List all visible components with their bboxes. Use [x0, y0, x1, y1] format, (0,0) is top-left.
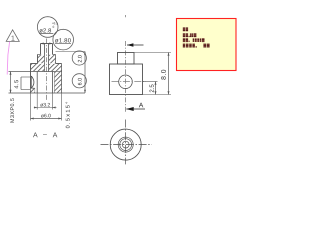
bore dia3.2 walls — [36, 72, 38, 94]
section arrow top — [127, 44, 144, 46]
dim 4.5 line — [10, 72, 12, 94]
section title A - A — [33, 132, 38, 137]
dim 8.0 line — [168, 53, 170, 95]
dim 2.5 extension — [143, 81, 158, 83]
bottom edge with extensions — [9, 92, 86, 94]
bottom view crosshair vertical — [125, 120, 127, 165]
note text line3 — [183, 38, 185, 42]
chamfer label 0.5x15 — [66, 102, 70, 128]
flange hatch band left — [31, 64, 44, 71]
body walls — [30, 64, 32, 94]
M3XP0.5 label — [10, 98, 14, 122]
dia6.0 dimension — [31, 118, 62, 120]
balloon circle dia 1.80 — [53, 29, 74, 50]
right view vertical centerline — [125, 41, 127, 113]
dim 4.5 text — [14, 80, 18, 88]
section view axis centerline — [46, 39, 48, 101]
collar walls — [37, 55, 39, 64]
collar hatch right — [49, 55, 55, 64]
right view hole circle — [119, 75, 133, 89]
inner small dim — [20, 77, 22, 90]
bottom view thread minor circle — [120, 139, 132, 151]
flange hatch band right — [49, 64, 61, 71]
bottom view crosshair horizontal — [101, 144, 152, 146]
balloon dim vertical line — [84, 52, 86, 94]
right view body — [110, 64, 143, 95]
right view top centerline dash — [125, 15, 127, 17]
balloon 6.0 — [72, 74, 86, 88]
note text line1 — [183, 27, 210, 47]
magenta leader line — [7, 42, 9, 75]
tolerance stack +0.1/0 — [52, 22, 58, 24]
hole dia1.8 walls — [44, 44, 46, 72]
dim 8.0 extensions — [134, 52, 171, 54]
boss walls — [40, 44, 42, 55]
surface finish triangle symbol 1 — [6, 30, 19, 42]
dia3.2 extension lines — [36, 93, 38, 110]
dim 4.5 extension top — [9, 71, 31, 73]
section arrow bottom with label A — [126, 108, 145, 110]
collar hatch left — [38, 55, 44, 64]
note text line2 — [183, 33, 185, 37]
bottom view thread major circle — [118, 137, 133, 152]
right view boss — [118, 53, 135, 65]
thread line right — [53, 72, 55, 94]
body top edges — [31, 63, 38, 65]
side lens recess — [30, 76, 32, 88]
note text line4 — [183, 44, 186, 48]
right wall hatch — [55, 72, 62, 93]
bore shoulder line — [31, 71, 62, 73]
boss top edge with dia2.8 dim arrows — [41, 43, 53, 45]
bottom-left hatch box — [34, 88, 36, 93]
dia6.0 extension lines — [30, 93, 32, 121]
bottom view outer circle — [110, 129, 141, 160]
balloon 2.0 — [72, 51, 86, 65]
collar step edges — [38, 54, 41, 56]
dim 2.5 line — [155, 82, 157, 95]
yellow note box — [177, 19, 237, 71]
dia3.2 dimension — [34, 107, 57, 109]
right view horizontal centerline — [112, 81, 147, 83]
balloon circle dia 2.8 — [37, 17, 58, 38]
bottom view hole circle — [122, 141, 129, 148]
